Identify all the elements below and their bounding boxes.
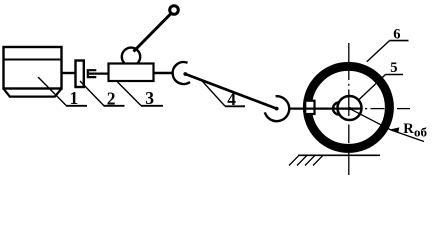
coupling 2 bbox=[76, 61, 84, 88]
motor M1 body bbox=[4, 47, 62, 89]
motor top strip line bbox=[4, 59, 62, 61]
horizontal centerline dash-dot bbox=[365, 108, 410, 110]
small eye circle at hub bbox=[333, 103, 345, 115]
radius line R inner segment bbox=[350, 109, 391, 130]
gearbox 3 body bbox=[109, 64, 154, 82]
ground hatches bbox=[289, 155, 323, 165]
wheel rim (thick ring) bbox=[307, 66, 389, 148]
leader 5 bbox=[358, 75, 386, 101]
leader 4 bbox=[202, 80, 226, 106]
motor base bbox=[4, 89, 62, 97]
bearing block on rim bbox=[305, 101, 314, 114]
svg-text:5: 5 bbox=[390, 60, 397, 76]
shaft fork to gearbox bbox=[89, 72, 109, 74]
knob ring bbox=[170, 6, 179, 15]
shaft gearbox to crank bbox=[154, 72, 173, 74]
leader 2 bbox=[80, 81, 104, 106]
radius line R outer segment bbox=[391, 130, 424, 142]
hub center dot bbox=[348, 107, 351, 110]
connecting rod 4 bbox=[185, 74, 276, 109]
shaft motor to coupling bbox=[62, 72, 76, 74]
leader 3 bbox=[118, 82, 142, 106]
lever bbox=[134, 14, 171, 52]
hook center dot bbox=[275, 107, 279, 111]
gearbox hump circle bbox=[122, 48, 140, 66]
crank center dot bbox=[183, 72, 187, 76]
leader 6 bbox=[367, 41, 390, 62]
arrowhead of R bbox=[390, 127, 399, 133]
leader 1 bbox=[38, 77, 66, 106]
shaft hook to hub bbox=[289, 107, 362, 109]
hub circle bbox=[338, 96, 362, 120]
vertical centerline dash-dot bbox=[348, 43, 350, 175]
clutch fork bbox=[88, 70, 97, 77]
svg-text:R: R bbox=[403, 121, 414, 137]
crank C-ring bbox=[173, 62, 190, 84]
ground line bbox=[298, 154, 380, 156]
svg-text:об: об bbox=[414, 125, 428, 140]
hook C-ring bbox=[265, 96, 289, 121]
